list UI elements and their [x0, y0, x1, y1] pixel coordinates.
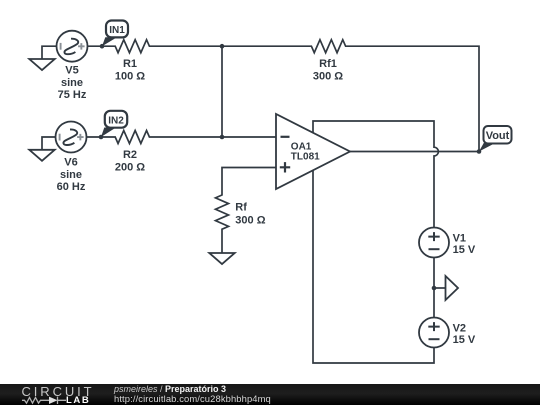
svg-text:15 V: 15 V: [453, 334, 476, 346]
svg-text:Rf1: Rf1: [319, 58, 337, 70]
svg-text:LAB: LAB: [66, 395, 90, 405]
svg-text:300 Ω: 300 Ω: [235, 215, 265, 227]
svg-text:http://circuitlab.com/cu28kbhb: http://circuitlab.com/cu28kbhbhp4mq: [114, 393, 271, 404]
svg-text:sine: sine: [60, 169, 82, 181]
svg-text:Vout: Vout: [486, 130, 510, 142]
svg-text:TL081: TL081: [291, 152, 320, 163]
svg-text:IN2: IN2: [108, 116, 124, 127]
svg-text:R1: R1: [123, 58, 137, 70]
svg-text:R2: R2: [123, 149, 137, 161]
svg-text:V5: V5: [65, 65, 78, 77]
svg-text:Rf: Rf: [235, 202, 247, 214]
svg-text:V1: V1: [453, 232, 466, 244]
svg-text:60 Hz: 60 Hz: [57, 181, 86, 193]
svg-text:200 Ω: 200 Ω: [115, 161, 145, 173]
svg-text:75 Hz: 75 Hz: [58, 89, 87, 101]
svg-text:sine: sine: [61, 77, 83, 89]
svg-text:V6: V6: [64, 157, 77, 169]
svg-text:IN1: IN1: [109, 25, 125, 36]
svg-text:V2: V2: [453, 322, 466, 334]
svg-text:100 Ω: 100 Ω: [115, 70, 145, 82]
svg-text:300 Ω: 300 Ω: [313, 71, 343, 83]
svg-text:15 V: 15 V: [453, 244, 476, 256]
